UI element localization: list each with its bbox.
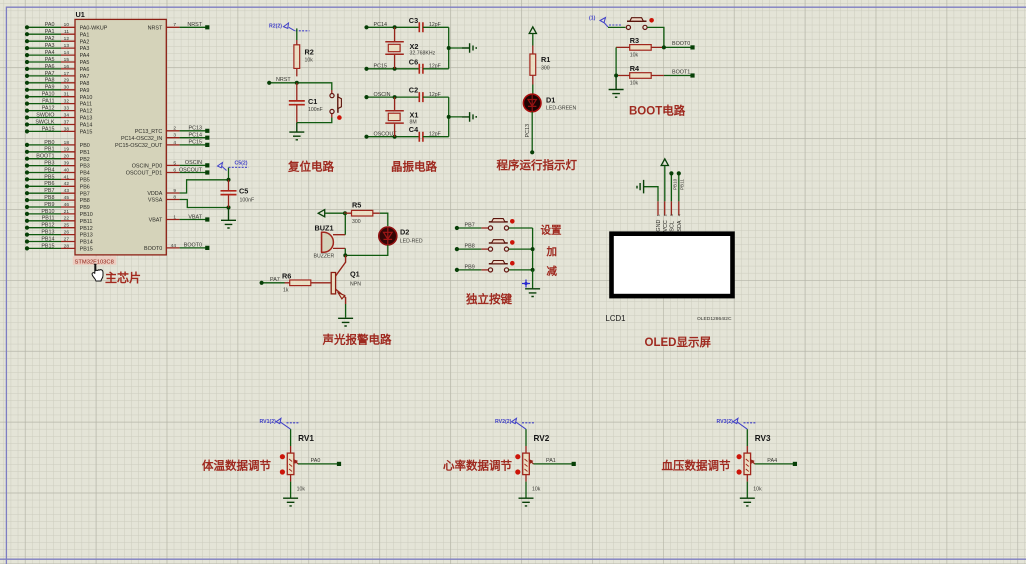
wire D1 to PC13 node	[531, 112, 533, 153]
svg-text:BOOT0: BOOT0	[672, 41, 690, 47]
svg-text:R6: R6	[282, 271, 291, 280]
wire buzzer top to R5 junction	[344, 213, 346, 235]
wire VSSA to C5 bottom	[180, 200, 229, 208]
svg-text:12pF: 12pF	[429, 92, 441, 98]
svg-text:10k: 10k	[305, 58, 314, 64]
push button PB9	[488, 268, 492, 272]
svg-text:R5: R5	[352, 201, 361, 210]
ground (keys)	[525, 289, 540, 297]
svg-text:12pF: 12pF	[429, 22, 441, 28]
svg-text:12pF: 12pF	[429, 64, 441, 70]
LED D1 (LED-GREEN)	[523, 94, 541, 112]
wire R4 right to BOOT1 terminal	[664, 75, 692, 77]
svg-text:RV3: RV3	[755, 434, 771, 443]
wire button to common	[509, 269, 533, 271]
wire power to R5	[325, 212, 344, 214]
svg-text:声光报警电路: 声光报警电路	[322, 333, 392, 347]
wire wiper to PA0 terminal	[298, 463, 339, 465]
ground below C5	[221, 208, 236, 229]
wire stub above C5 (OSCOUT net pointer)	[228, 168, 230, 180]
svg-text:C6: C6	[409, 57, 418, 66]
svg-text:BUZ1: BUZ1	[315, 224, 334, 233]
svg-text:独立按键: 独立按键	[466, 292, 512, 306]
svg-text:PA4: PA4	[767, 458, 777, 464]
svg-text:1: 1	[656, 214, 661, 216]
wire PA7 to R6	[262, 282, 285, 284]
svg-text:VCC: VCC	[663, 220, 669, 231]
svg-text:10k: 10k	[753, 487, 762, 493]
potentiometer RV3 body	[744, 453, 751, 475]
junction dots at crystal	[393, 97, 397, 137]
power terminal (left arrow)	[318, 210, 325, 217]
svg-text:12pF: 12pF	[429, 132, 441, 138]
terminal dots	[364, 97, 368, 137]
U1 right pin stubs	[166, 27, 179, 248]
svg-text:10k: 10k	[297, 487, 306, 493]
svg-text:32.768KHz: 32.768KHz	[410, 51, 436, 57]
blue net pointer RV2(2)	[512, 418, 536, 429]
svg-text:C3: C3	[409, 16, 418, 25]
hand cursor	[92, 264, 103, 281]
svg-text:BUZZER: BUZZER	[314, 254, 335, 260]
svg-text:SDA: SDA	[677, 220, 683, 231]
svg-text:Q1: Q1	[350, 269, 360, 278]
ground (RV2)	[519, 498, 534, 506]
svg-text:PA0: PA0	[311, 458, 321, 464]
capacitor C5	[228, 180, 230, 208]
svg-text:LED-GREEN: LED-GREEN	[546, 105, 577, 111]
rotated ground terminal	[462, 112, 476, 122]
common vertical wire of keys	[532, 228, 534, 270]
svg-text:BOOT电路: BOOT电路	[629, 104, 686, 118]
svg-text:10k: 10k	[630, 53, 639, 59]
wire GND pin to side ground	[644, 187, 658, 202]
blue origin marker	[522, 280, 530, 288]
wire R5 to D2	[380, 213, 388, 226]
wire bottom to ground	[290, 482, 292, 498]
svg-text:3: 3	[669, 214, 674, 216]
svg-text:加: 加	[546, 245, 558, 258]
wire SDA	[678, 173, 680, 201]
svg-text:D1: D1	[546, 95, 555, 104]
wires to U1 left pins	[27, 27, 61, 248]
wire OSCOUT row	[367, 136, 420, 138]
svg-text:SCL: SCL	[670, 221, 676, 232]
wire PB7 to button	[457, 227, 482, 229]
wire D2 to junction	[345, 245, 388, 255]
svg-text:复位电路: 复位电路	[287, 160, 334, 174]
blue net pointer R2(2)	[284, 23, 310, 31]
svg-text:300: 300	[352, 219, 361, 225]
svg-text:心率数据调节: 心率数据调节	[443, 459, 512, 473]
push button PB8	[488, 247, 492, 251]
svg-text:(1): (1)	[589, 16, 596, 22]
svg-text:C1: C1	[308, 97, 317, 106]
node junction dots at C5	[227, 180, 231, 208]
wire button to BOOT0 node	[647, 27, 664, 47]
reset push button	[331, 90, 333, 118]
crystal X2	[394, 27, 396, 69]
terminal dots	[364, 27, 368, 69]
wire power to R1	[532, 34, 534, 46]
junction dot R4 left	[614, 74, 618, 78]
svg-text:D2: D2	[400, 227, 409, 236]
ground (alarm circuit)	[338, 318, 353, 326]
wire bottom to ground	[746, 482, 748, 498]
RV2 actuator dots	[515, 454, 520, 459]
junction dots at crystal	[393, 27, 397, 69]
RV1 actuator dots	[280, 454, 285, 459]
svg-text:主芯片: 主芯片	[105, 270, 141, 285]
capacitor C2	[419, 92, 423, 102]
blue net pointer (1)	[600, 18, 622, 28]
wire button bottom to C1/ground	[297, 118, 332, 123]
left vertical wire R3-R4	[615, 47, 617, 75]
U1 value label STM32F103C8 (highlighted)	[73, 256, 117, 265]
svg-text:PB11: PB11	[680, 179, 685, 190]
op-amp U1 main chip STM32F103C8 body	[75, 19, 166, 255]
wire SCL	[670, 173, 672, 201]
svg-text:PB9: PB9	[465, 264, 475, 270]
wire button to common	[509, 248, 533, 250]
svg-text:PA1: PA1	[546, 458, 556, 464]
power terminal above VCC	[661, 159, 668, 166]
resistor R4	[616, 75, 664, 77]
right vertical wire joining caps	[449, 97, 462, 137]
svg-text:体温数据调节: 体温数据调节	[202, 459, 271, 473]
wire buzzer bottom to collector junction	[344, 248, 346, 255]
svg-text:NRST: NRST	[276, 77, 291, 83]
svg-text:300: 300	[541, 65, 550, 71]
capacitor C6	[419, 64, 423, 74]
wire VDDA to C5	[180, 180, 229, 193]
potentiometer RV2 body	[523, 453, 530, 475]
svg-text:设置: 设置	[541, 223, 562, 236]
wire into BOOT button	[608, 26, 626, 28]
svg-text:RV2: RV2	[534, 434, 550, 443]
svg-text:R2: R2	[305, 48, 314, 57]
push button PB7	[488, 226, 492, 230]
junction dot collector node	[343, 253, 347, 257]
svg-text:OLED12864I2C: OLED12864I2C	[697, 316, 732, 322]
svg-text:NPN: NPN	[350, 281, 361, 287]
blue net pointer RV3(2)	[733, 418, 757, 429]
svg-text:10k: 10k	[630, 81, 639, 87]
capacitor C1	[296, 83, 298, 123]
svg-text:C5(2): C5(2)	[235, 161, 248, 167]
svg-text:PB10: PB10	[672, 178, 677, 190]
ground (BOOT circuit)	[609, 76, 624, 98]
svg-text:PA7: PA7	[270, 277, 280, 283]
svg-text:减: 减	[547, 264, 558, 277]
resistor R5	[344, 212, 380, 214]
RV3 actuator dots	[737, 454, 742, 459]
junction dots on common wire	[531, 249, 535, 270]
svg-text:PB8: PB8	[465, 244, 475, 250]
wire button to common	[509, 227, 533, 229]
ground (RV1)	[283, 498, 298, 506]
wire PB8 to button	[457, 248, 482, 250]
svg-text:100nF: 100nF	[240, 198, 255, 204]
svg-text:X1: X1	[410, 111, 419, 120]
wire PC14 row	[367, 26, 420, 28]
resistor R2	[296, 40, 298, 76]
wire above R2	[296, 28, 298, 40]
svg-text:程序运行指示灯: 程序运行指示灯	[497, 158, 578, 172]
resistor R1	[532, 46, 534, 85]
Q1 emitter arrow	[338, 293, 345, 299]
right vertical wire joining caps	[449, 27, 462, 69]
right net wires (NRST PC13 PC14 PC15 OSCIN OSCOUT VBAT BOOT0)	[180, 27, 207, 248]
capacitor C3	[419, 22, 423, 32]
LCD1 OLED display body	[612, 234, 733, 296]
svg-text:GND: GND	[656, 220, 662, 232]
svg-text:RV3(2): RV3(2)	[717, 419, 734, 425]
resistor R6	[285, 282, 332, 284]
svg-text:R3: R3	[630, 36, 639, 45]
wire PC15 row	[367, 68, 420, 70]
svg-text:2: 2	[662, 214, 667, 216]
BOOT push button	[626, 25, 630, 29]
LED D2 (LED-RED)	[379, 227, 397, 245]
wire PB9 to button	[457, 269, 482, 271]
LCD1 pin stubs	[658, 201, 679, 215]
RV3 wiper arrow	[751, 460, 755, 464]
wire to ground	[532, 270, 534, 288]
ground (RV3)	[740, 498, 755, 506]
svg-text:晶振电路: 晶振电路	[391, 160, 437, 174]
svg-text:PC13: PC13	[525, 124, 531, 138]
blue net pointer RV1(2)	[276, 418, 300, 429]
svg-text:100nF: 100nF	[308, 107, 323, 113]
svg-text:RV1(2): RV1(2)	[260, 419, 277, 425]
svg-text:U1: U1	[76, 10, 85, 19]
buzzer BUZ1	[321, 232, 323, 252]
svg-text:LED-RED: LED-RED	[400, 238, 423, 244]
svg-text:R2(2): R2(2)	[269, 24, 282, 30]
svg-text:RV2(2): RV2(2)	[495, 419, 512, 425]
ground (reset circuit)	[289, 123, 304, 140]
wire bottom to ground	[525, 482, 527, 498]
left wire end dots	[25, 27, 29, 248]
svg-text:C5: C5	[239, 187, 248, 196]
wire top into RV3	[746, 429, 748, 446]
crystal X1	[394, 97, 396, 137]
svg-text:LCD1: LCD1	[606, 314, 626, 323]
svg-text:R1: R1	[541, 55, 550, 64]
junction dot buzzer/R5	[343, 211, 347, 215]
node NRST wire	[269, 83, 332, 90]
svg-text:BOOT1: BOOT1	[672, 69, 690, 75]
svg-text:1k: 1k	[283, 288, 289, 294]
svg-text:血压数据调节: 血压数据调节	[662, 459, 731, 473]
capacitor C4	[419, 132, 423, 142]
wire R1 to D1	[532, 85, 534, 95]
wire R3 right to BOOT0 terminal	[664, 46, 692, 48]
rotated ground (OLED)	[637, 180, 644, 194]
wire OSCIN row	[367, 96, 420, 98]
transistor Q1 NPN	[336, 255, 346, 276]
wire top into RV2	[525, 429, 527, 446]
svg-text:OLED显示屏: OLED显示屏	[645, 336, 712, 349]
rotated ground terminal	[462, 43, 476, 53]
wire emitter to ground	[345, 304, 347, 318]
power terminal (up arrow) above R1	[529, 27, 536, 34]
svg-text:RV1: RV1	[298, 434, 314, 443]
blue net pointer C5(2)	[218, 163, 249, 171]
svg-text:C4: C4	[409, 125, 419, 134]
right net terminals	[205, 27, 209, 248]
svg-text:C2: C2	[409, 86, 418, 95]
wire top into RV1	[290, 429, 292, 446]
RV2 wiper arrow	[530, 460, 534, 464]
wire wiper to PA1 terminal	[533, 463, 573, 465]
RV1 wiper arrow	[294, 460, 298, 464]
svg-text:PB7: PB7	[465, 223, 475, 229]
BUZ1 pins	[333, 235, 345, 249]
U1 left pin stubs (PA0-PA15, PB0-PB15)	[61, 27, 75, 248]
svg-text:X2: X2	[410, 42, 419, 51]
svg-text:R4: R4	[630, 64, 640, 73]
svg-text:10k: 10k	[532, 487, 541, 493]
resistor R3	[616, 46, 664, 48]
wire wiper to PA4 terminal	[755, 463, 795, 465]
potentiometer RV1 body	[287, 453, 294, 475]
